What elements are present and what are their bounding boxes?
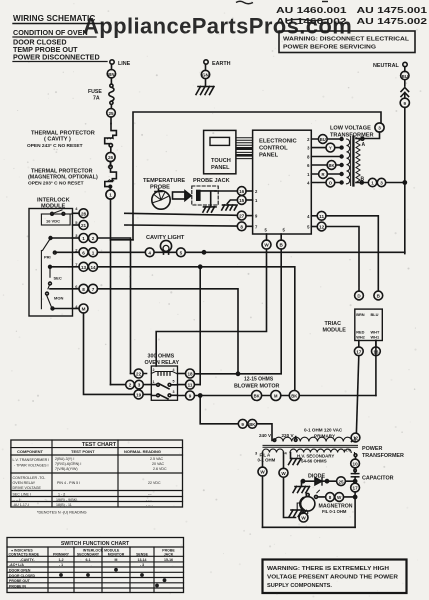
terminal EARTH [204,60,231,71]
svg-text:-AU 1-17-I: -AU 1-17-I [13,503,30,507]
svg-text:POWER DISCONNECTED: POWER DISCONNECTED [13,53,100,62]
svg-text:ELECTRONIC: ELECTRONIC [259,139,297,145]
interlock primary switch [41,237,72,309]
svg-text:*DENOTES N -(U) READING: *DENOTES N -(U) READING [37,511,87,515]
svg-text:PROBE IN: PROBE IN [9,584,26,588]
ground (probe jack) [203,207,216,212]
node pair 13 14 [73,262,98,271]
svg-text:BU: BU [402,74,408,79]
svg-text:27: 27 [239,214,245,219]
wire: monitor M to relay 19 [84,313,135,394]
power transformer core [263,445,358,447]
svg-text:7(R/G)-6(GRN) I: 7(R/G)-6(GRN) I [55,462,81,466]
svg-text:CONTROLLER -TO-: CONTROLLER -TO- [13,476,47,480]
warning box: disconnect electrical power [279,31,415,53]
wire: LV secondary B to neutral [356,182,405,184]
wire label BU [401,71,409,86]
junction sense/blower [293,394,296,397]
oven relay label [145,354,180,367]
svg-text:54-66 OHMS: 54-66 OHMS [301,459,327,464]
svg-text:BK: BK [254,394,260,399]
svg-text:PROBE OUT: PROBE OUT [9,579,31,583]
svg-text:2: 2 [153,368,155,372]
svg-text:SENSE: SENSE [136,553,149,557]
svg-text:12-15 OHMS: 12-15 OHMS [244,377,274,383]
svg-text:CONTROL: CONTROL [259,146,288,152]
triac module label [323,321,347,334]
node 8 (ECP left) [237,222,252,231]
node 1 (LV sec) [368,178,376,186]
svg-text:8: 8 [240,224,243,229]
svg-text:BU: BU [320,137,326,142]
svg-text:PANEL: PANEL [259,153,279,159]
node pair 1 2 [73,234,98,243]
warning box: high voltage [263,560,407,594]
connector chevrons [401,88,409,99]
junction blower feed [199,394,202,397]
svg-text:11: 11 [319,214,324,219]
node M (monitor) [73,304,89,313]
svg-text:2: 2 [129,383,132,388]
svg-text:AU 1460.002 AU 1475.002: AU 1460.002 AU 1475.002 [276,17,428,26]
thermal protector (magnetron) switch [105,162,117,190]
junction magnetron/cap chain [354,495,357,498]
wire ECP pin1 to LV (R) [311,170,343,179]
svg-text:16: 16 [239,189,245,194]
node 1 [106,190,115,199]
svg-text:GN: GN [202,73,208,78]
low voltage transformer label [330,126,374,139]
svg-text:PIN 4 - PIN 5 I: PIN 4 - PIN 5 I [57,481,80,485]
electronic control panel U1 [253,130,312,234]
svg-text:TEST CHART: TEST CHART [82,442,117,448]
svg-text:TOUCH: TOUCH [211,158,231,164]
svg-text:14: 14 [90,265,96,270]
svg-text:OVEN RELAY: OVEN RELAY [13,481,36,485]
svg-text:H.V.: H.V. [344,448,351,453]
svg-text:A: A [362,142,366,148]
svg-text:19: 19 [136,393,142,398]
svg-text:1: 1 [82,236,85,241]
thermal protector (cavity) switch [105,124,117,153]
svg-text:W: W [264,243,269,248]
node 9 (relay right) [178,391,376,400]
svg-text:SEC: SEC [54,276,62,281]
svg-text:OVEN RELAY: OVEN RELAY [145,360,180,366]
svg-text:1: 1 [371,181,374,186]
node W (magnetron fil bottom) [299,511,308,523]
svg-text:15: 15 [239,198,245,203]
svg-text:TRIAC: TRIAC [325,321,342,327]
test chart table [11,440,183,507]
svg-text:12: 12 [353,436,359,441]
scan artifact marks [236,1,328,20]
svg-text:17: 17 [356,349,362,354]
ECP left pin numbers [255,189,286,233]
svg-text:0-1 OHM 120 VAC: 0-1 OHM 120 VAC [304,428,343,433]
svg-text:240 V: 240 V [259,433,272,438]
node 3 (LV transformer primary top) [356,123,384,139]
svg-text:BK: BK [249,422,255,427]
svg-text:0-1 OHM: 0-1 OHM [258,458,276,463]
node 21 [73,221,89,230]
svg-text:16 VDC: 16 VDC [46,219,60,224]
svg-text:BLU: BLU [371,312,379,317]
svg-text:OPEN 203° C NO RESET: OPEN 203° C NO RESET [28,181,84,187]
node 19 [134,390,151,399]
svg-text:EARTH: EARTH [212,61,231,67]
svg-text:VOLTAGE PRESENT AROUND THE POW: VOLTAGE PRESENT AROUND THE POWER [267,575,398,581]
ribbon cable touch panel to ECP [236,138,253,159]
wire ECP pin2 to LV (BU) [311,135,343,144]
svg-text:W: W [301,516,306,521]
svg-text:22: 22 [136,372,142,377]
wire: neutral bus down [404,107,406,253]
svg-text:TEMPERATURE: TEMPERATURE [143,178,185,184]
svg-text:CONTACTS MADE: CONTACTS MADE [9,553,40,557]
touch panel [204,130,236,173]
svg-text:12: 12 [319,225,325,230]
node 8 (magnetron) [318,493,356,502]
svg-text:FUSE: FUSE [88,89,102,95]
svg-text:-AC+ L/A: -AC+ L/A [9,563,24,567]
node pair 8 7 [73,284,98,293]
svg-text:AU 1460.001 AU 1475.001: AU 1460.001 AU 1475.001 [276,6,428,15]
svg-text:SUPPLY COMPONENTS.: SUPPLY COMPONENTS. [267,583,332,589]
switch function chart [7,538,184,593]
svg-text:5: 5 [173,380,175,384]
svg-text:6-1: 6-1 [85,558,90,562]
wire: blower row up to triac WH1 [375,341,377,396]
title WIRING SCHEMATIC [13,14,103,24]
junction neutral / LV secondary [403,181,406,184]
svg-text:NEUTRAL: NEUTRAL [373,63,399,69]
wire: relay9 tap down to transformer primary [200,396,272,441]
thermal protector (cavity) label [27,131,95,150]
svg-text:9: 9 [404,101,407,106]
node 10 (HV out) [351,438,360,468]
wire: main line feed down to oven relay [110,199,112,385]
interlock module label [37,198,70,210]
ECP bottom pin W [262,234,271,249]
svg-text:POWER: POWER [362,446,382,452]
wire: W to oven relay coil [156,249,266,366]
svg-text:18(B) - 11: 18(B) - 11 [56,503,72,507]
svg-text:NORMAL READING: NORMAL READING [124,449,161,454]
cavity light lamp [160,240,171,254]
thermal protector (magnetron) label [28,169,98,187]
svg-text:PRI: PRI [44,255,51,260]
node 12 (primary right) [351,433,360,442]
secondary HV winding [290,448,351,453]
node 28 [73,209,89,218]
node pair 6 1 [73,248,98,257]
node 9 (primary feed) [238,419,247,428]
fuse F1 7A [88,84,114,108]
svg-text:15-16: 15-16 [164,558,173,562]
wire node12 to triac left [326,227,359,292]
svg-text:MON: MON [54,296,63,301]
ground (probe sense) [222,205,237,210]
blower motor label [234,377,280,390]
oven relay K1 [151,366,177,400]
terminal NEUTRAL [373,62,407,71]
interlock module box [29,209,73,317]
svg-text:25: 25 [338,479,344,484]
wire: B to relay contact row [190,249,281,374]
svg-text:18: 18 [187,372,193,377]
wire interlock 21 to ECP 8 [125,225,238,226]
svg-text:2.6 VDC: 2.6 VDC [153,467,167,471]
wire: cavity light row (interlock 6-1 to neutral) [98,251,405,253]
svg-text:BRN: BRN [356,312,365,317]
svg-text:4: 4 [148,250,151,255]
interlock monitor switch [46,292,73,310]
svg-text:M: M [82,307,86,312]
svg-text:8: 8 [82,287,85,292]
svg-text:9: 9 [189,394,192,399]
svg-text:11: 11 [188,383,193,388]
svg-text:10: 10 [353,462,359,467]
svg-text:MODULE: MODULE [323,328,347,334]
junction sense/relay [199,265,202,268]
svg-text:INTERLOCK: INTERLOCK [37,198,70,204]
svg-text:BK: BK [328,163,334,168]
wire: HV return bottom [263,526,356,528]
ground (HV center tap) [289,453,302,465]
wire node11 to triac gate right [326,216,378,291]
wire ECP pin6 to LV (BK) [311,161,343,170]
model numbers [276,6,428,26]
svg-text:1-2: 1-2 [58,558,63,562]
secondary labels [258,453,335,464]
svg-text:M: M [274,394,278,399]
svg-text:3: 3 [378,126,381,131]
svg-text:7A: 7A [93,96,100,102]
svg-text:CAPACITOR: CAPACITOR [362,476,394,482]
svg-text:PANEL: PANEL [211,165,230,171]
svg-text:WARNING: THERE IS EXTREMELY H: WARNING: THERE IS EXTREMELY HIGH [267,566,389,572]
blower motor M1 [252,391,300,401]
svg-text:DOOR CLOSED: DOOR CLOSED [9,574,36,578]
terminal LINE [110,60,131,70]
node 17 (cap bottom) [351,483,360,527]
svg-text:B: B [361,177,365,183]
svg-text:3: 3 [138,383,141,388]
svg-text:COMPONENT: COMPONENT [17,449,44,454]
power transformer labels [259,428,404,460]
interlock secondary switch [48,265,73,288]
svg-text:Y: Y [329,146,332,151]
svg-text:WIRING SCHEMATIC: WIRING SCHEMATIC [13,14,95,23]
ground (magnetron) [289,510,304,517]
node 18 (relay right) [178,369,195,378]
svg-text:16: 16 [373,349,379,354]
node W (fil left) [258,467,267,527]
ground (earth chassis) [196,87,214,95]
svg-text:9: 9 [241,422,244,427]
node 11 (ECP right lower) [311,211,326,220]
ground (diode) [293,481,310,493]
svg-text:SECONDARY: SECONDARY [77,553,100,557]
svg-text:BN: BN [108,72,114,77]
svg-text:R: R [321,172,324,177]
svg-text:WARNING: DISCONNECT ELECTRICA: WARNING: DISCONNECT ELECTRICAL [283,37,410,43]
probe jack (dashed) [192,186,218,206]
wire: sense drop to relay 11 [199,267,201,385]
node 27 (ECP left) [237,211,252,220]
node pair 2 3 (relay) [111,380,152,389]
svg-text:2(BU)-3(Y) I: 2(BU)-3(Y) I [55,457,74,461]
wire: pair 8-7 to triac run [98,289,239,374]
svg-text:1: 1 [109,193,112,198]
svg-text:13: 13 [81,265,87,270]
svg-text:22 VDC: 22 VDC [148,481,161,485]
node 22 [131,369,147,378]
node 16 (ECP left) [215,187,253,196]
svg-text:8: 8 [329,495,332,500]
svg-text:M: M [115,558,118,562]
svg-text:2.5 VAC: 2.5 VAC [150,457,164,461]
ECP right pin numbers [307,137,310,230]
wire ECP pin4 to LV (O) [311,178,343,187]
wire label BN [107,70,115,85]
svg-text:WH1: WH1 [371,335,380,340]
node 16 (triac bottom right) [372,341,381,356]
junction cavity row [202,251,205,254]
svg-text:26: 26 [108,155,114,160]
svg-text:20 VAC: 20 VAC [152,462,165,466]
svg-text:BK: BK [291,394,297,399]
node W (fil right) [279,468,296,517]
wire: pair 13-14 sense run [98,267,295,396]
svg-text:PROBE JACK: PROBE JACK [193,178,230,184]
svg-text:5: 5 [180,250,183,255]
node 25 [337,477,346,486]
svg-text:W: W [260,470,265,475]
svg-text:17: 17 [353,486,359,491]
interlock 16VDC sense switch [41,210,72,225]
svg-text:-- -- I: -- -- I [13,498,21,502]
svg-text:DRIVE VOLTAGE: DRIVE VOLTAGE [13,486,42,490]
node 9 [400,98,409,107]
svg-text:19(R) - 9(BK): 19(R) - 9(BK) [56,498,77,502]
probe plug body [173,191,192,201]
wire ECP pin3 to LV (Y) [311,143,343,152]
triac module U2 [355,309,383,340]
svg-text:28: 28 [81,211,87,216]
svg-text:PROBE: PROBE [150,185,170,191]
node 26 [106,152,115,166]
svg-text:- 3: - 3 [140,563,144,567]
svg-text:LOW VOLTAGE: LOW VOLTAGE [330,126,371,132]
node B (triac top right) [374,291,383,300]
svg-text:7(V/B)-8(Y/W): 7(V/B)-8(Y/W) [55,467,78,471]
svg-text:L.V. TRANSFORMER I: L.V. TRANSFORMER I [13,458,50,462]
svg-text:- -- -: - -- - [146,503,154,507]
svg-text:FIL 0-1 OHM: FIL 0-1 OHM [322,509,347,514]
svg-text:TEST POINT: TEST POINT [71,449,95,454]
svg-text:BLOWER MOTOR: BLOWER MOTOR [234,384,280,390]
node 12 (ECP right lower) [311,222,326,231]
svg-text:7: 7 [92,287,95,292]
svg-text:3: 3 [173,390,175,394]
svg-text:SEC LINE I: SEC LINE I [13,493,31,497]
magnetron V1 [297,490,319,513]
wire: pair 1-2 down to relay 22 [98,238,131,374]
svg-text:WH2: WH2 [356,335,365,340]
wire label BK (primary feed) [248,419,257,428]
svg-text:4: 4 [173,368,175,372]
node 11 (relay right) [178,380,201,389]
node 4 [145,248,154,257]
condition of oven text block [13,28,107,62]
svg-text:1: 1 [153,380,155,384]
svg-text:1: 1 [92,250,95,255]
interlock pin numbers [75,206,78,309]
node 3 (LV sec) [377,178,385,186]
node 25 [107,109,116,124]
node W (magnetron) [335,493,344,502]
svg-text:SWITCH FUNCTION CHART: SWITCH FUNCTION CHART [61,541,130,547]
junction diode/cap chain [354,480,357,483]
temperature probe sensor [152,189,170,209]
ECP bottom pin B [277,234,286,249]
svg-text:TRANSFORMER: TRANSFORMER [330,133,374,139]
node 17 (triac bottom left) [354,341,363,434]
svg-text:CONDITION OF OVEN: CONDITION OF OVEN [13,28,88,37]
svg-text:MONITOR: MONITOR [108,553,125,557]
svg-text:6: 6 [82,250,85,255]
wire label GN [201,70,209,86]
svg-text:13-14: 13-14 [138,558,147,562]
low voltage transformer T1 [347,137,366,186]
wire: line feed top bus [111,112,382,240]
svg-text:( CAVITY ): ( CAVITY ) [44,137,71,143]
svg-text:- 1: - 1 [59,563,63,567]
magnetron labels [319,504,353,515]
svg-text:- TPWR VOLTAGES I: - TPWR VOLTAGES I [14,464,49,468]
svg-text:OPEN 243° C NO RESET: OPEN 243° C NO RESET [27,143,83,149]
svg-text:TRANSFORMER: TRANSFORMER [362,453,404,459]
capacitor C1 [351,468,393,483]
svg-text:LINE: LINE [118,61,131,67]
wire: FIL A pin3 drop [262,453,264,468]
svg-text:POWER BEFORE SERVICING: POWER BEFORE SERVICING [283,45,377,51]
junction B-row / triac run [236,372,239,375]
svg-text:W: W [281,471,286,476]
node D (triac top left) [355,291,364,300]
temperature probe label [143,178,185,191]
node 5 [177,248,186,257]
svg-text:21: 21 [81,223,87,228]
wire: FIL A pin4 drop [283,453,285,469]
svg-text:3: 3 [380,181,383,186]
secondary FIL A winding [255,449,288,455]
svg-text:(MAGNETRON, OPTIONAL): (MAGNETRON, OPTIONAL) [28,175,98,181]
svg-text:JACK: JACK [164,553,174,557]
node 15 (ECP left) [227,196,252,205]
wire interlock 28 to ECP 27 [125,213,238,215]
diode D1 [301,477,355,485]
wire ECP pin8 to LV [311,155,343,158]
svg-text:25: 25 [108,111,114,116]
svg-text:PRIMARY: PRIMARY [53,553,70,557]
svg-text:W: W [337,495,342,500]
power transformer T2 primary [273,437,354,442]
svg-text:300 OHMS: 300 OHMS [148,354,175,360]
